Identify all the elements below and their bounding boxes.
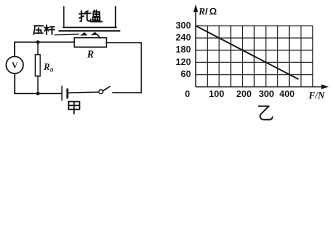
leader line from 压杆 to rod: [55, 33, 79, 36]
node junction dot bottom: [36, 92, 39, 95]
node junction dot top: [36, 40, 39, 43]
y axis arrowhead: [193, 5, 198, 12]
label 压杆 (push rod) glyph 压: [34, 26, 43, 34]
wire: top right: [107, 42, 142, 44]
resistor R0 stub top: [37, 42, 39, 55]
switch pivot circle: [99, 90, 103, 94]
label 压杆 (push rod) glyph 杆: [44, 25, 54, 34]
svg-text:300: 300: [259, 89, 274, 99]
switch blade: [103, 87, 110, 91]
label 托盘 (tray) glyph 盘: [91, 10, 102, 21]
svg-text:R: R: [86, 50, 94, 61]
svg-text:180: 180: [176, 45, 191, 55]
label 托盘 (tray) glyph 托: [79, 11, 91, 21]
svg-text:120: 120: [176, 57, 191, 67]
wire: top left: [15, 41, 75, 43]
voltmeter V stub top: [14, 42, 16, 56]
svg-text:240: 240: [176, 33, 191, 43]
rheostat R box: [74, 38, 106, 47]
resistor R0 body: [35, 55, 40, 77]
x axis: [196, 86, 323, 88]
x axis arrowhead: [321, 84, 329, 89]
svg-text:R/Ω: R/Ω: [198, 7, 217, 18]
resistor R0 stub bottom: [37, 76, 39, 93]
svg-text:60: 60: [181, 69, 191, 79]
svg-text:R0: R0: [43, 63, 54, 74]
svg-text:F/N: F/N: [308, 91, 326, 102]
voltmeter V circle: [6, 56, 23, 73]
svg-text:300: 300: [176, 20, 191, 30]
battery short thick plate: [66, 89, 68, 97]
wire: right vertical: [140, 43, 142, 93]
svg-text:V: V: [12, 60, 19, 70]
wire: battery to switch: [69, 91, 99, 94]
grid vertical lines: [207, 26, 312, 87]
label 乙 (figure B): [258, 106, 273, 119]
wire: switch to right corner: [113, 92, 142, 94]
R vs F line: [196, 26, 299, 80]
slider arrow (pressure rod tip): [80, 32, 100, 38]
wire: bottom left: [15, 93, 62, 95]
svg-text:0: 0: [185, 89, 190, 99]
battery long plate: [61, 86, 63, 100]
y axis: [195, 10, 197, 87]
svg-text:400: 400: [279, 89, 294, 99]
voltmeter V stub bottom: [14, 74, 16, 94]
grid horizontal lines: [196, 26, 313, 75]
tray (托盘) container: [63, 7, 116, 28]
svg-text:100: 100: [209, 89, 224, 99]
svg-text:200: 200: [236, 89, 251, 99]
tray support plate: [59, 30, 120, 32]
label 甲 (figure A): [69, 102, 80, 115]
